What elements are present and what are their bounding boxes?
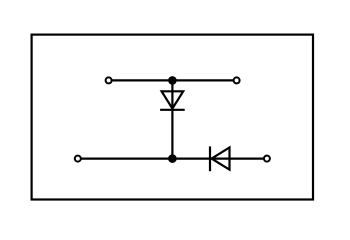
terminal top-right [234,77,240,83]
wire bottom bus [78,158,267,160]
diode D1 (vertical, cathode down) [160,91,185,110]
wire vertical branch [171,80,173,158]
border frame [32,35,313,200]
terminal top-left [106,77,112,83]
terminal bottom-left [75,156,81,162]
junction bottom [168,154,177,163]
terminal bottom-right [264,156,270,162]
junction top [168,76,177,85]
diode D2 (horizontal, cathode left) [210,146,230,171]
wire top bus [109,79,237,81]
